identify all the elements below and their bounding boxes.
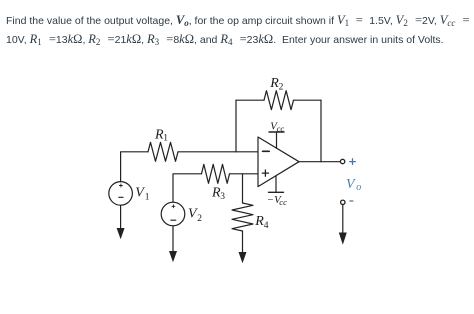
svg-text:2: 2 <box>197 214 202 224</box>
label R4 <box>254 214 269 231</box>
wire: R4 branch down <box>242 174 244 203</box>
wire: output <box>299 161 340 163</box>
label Vo (blue) <box>346 177 361 193</box>
ground arrow under R4 <box>239 252 247 263</box>
resistor R3 <box>202 164 230 183</box>
-Vcc bar <box>269 191 284 193</box>
svg-text:V: V <box>346 177 356 192</box>
wire: feedback left vertical <box>235 100 237 152</box>
wire: R3 to non-inverting input <box>230 173 259 175</box>
label Vcc <box>270 120 284 133</box>
wire: minus terminal to ground arrow <box>342 205 344 234</box>
ground arrow under V2 <box>169 251 177 262</box>
V2 minus mark <box>171 219 176 221</box>
op-amp U1 <box>258 137 299 187</box>
svg-text:cc: cc <box>279 197 287 207</box>
resistor R2 <box>264 91 294 110</box>
blue plus label <box>350 159 356 165</box>
label V1 <box>135 185 150 202</box>
svg-text:V: V <box>135 185 145 200</box>
svg-text:o: o <box>356 182 361 193</box>
wire: V1 top horizontal to R1 <box>121 152 148 182</box>
resistor R4 <box>232 203 253 231</box>
svg-text:4: 4 <box>264 221 269 231</box>
wire: R4 to ground arrow <box>242 231 244 253</box>
op-amp plus input mark <box>262 170 268 176</box>
source V1 <box>109 182 133 206</box>
V2 plus mark <box>172 205 175 208</box>
svg-text:1: 1 <box>163 134 168 144</box>
blue minus label <box>350 200 353 202</box>
wire: feedback top right <box>294 99 322 101</box>
svg-text:3: 3 <box>220 192 225 202</box>
label V2 <box>188 207 202 224</box>
V1 minus mark <box>119 196 123 198</box>
output terminal + <box>340 159 344 163</box>
svg-text:cc: cc <box>277 123 285 133</box>
wire: V2 top vertical from R3 <box>173 174 202 202</box>
svg-text:2: 2 <box>279 82 284 92</box>
svg-text:R: R <box>254 214 264 229</box>
output terminal - <box>341 200 345 204</box>
Vcc supply line <box>276 132 278 148</box>
source V2 <box>161 202 185 226</box>
label R1 <box>154 128 168 144</box>
wire: feedback top left <box>236 99 264 101</box>
V1 plus mark <box>119 184 122 187</box>
ground arrow under V1 <box>117 228 125 239</box>
Vcc bar <box>269 131 284 133</box>
label R3 <box>211 186 225 203</box>
svg-text:1: 1 <box>145 193 150 203</box>
wire: feedback right vertical <box>320 100 322 162</box>
wire: V2 to ground arrow <box>172 226 174 252</box>
wire: R1 to inverting input <box>178 151 258 153</box>
label -Vcc <box>267 194 287 207</box>
-Vcc supply line <box>275 176 277 193</box>
op-amp minus input mark <box>263 150 270 152</box>
resistor R1 <box>148 142 178 161</box>
label R2 <box>269 76 283 92</box>
ground arrow under output <box>339 233 347 245</box>
wire: V1 to ground arrow <box>120 205 122 229</box>
